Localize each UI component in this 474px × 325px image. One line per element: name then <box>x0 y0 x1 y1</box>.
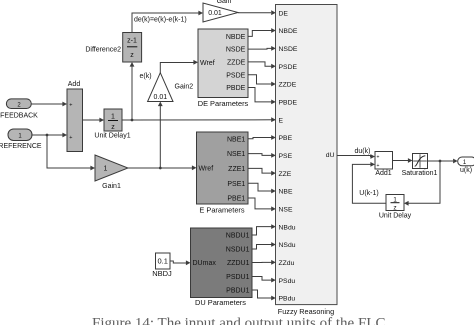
svg-text:PBDE: PBDE <box>226 85 245 92</box>
svg-text:PBDE: PBDE <box>279 99 298 106</box>
svg-text:NBDU1: NBDU1 <box>226 233 250 240</box>
svg-text:Figure 14: The input and outpu: Figure 14: The input and output units of… <box>92 315 385 325</box>
svg-text:1: 1 <box>104 166 108 173</box>
svg-text:+: + <box>376 155 379 161</box>
svg-text:ZZE: ZZE <box>279 171 292 178</box>
svg-text:du(k): du(k) <box>355 148 371 155</box>
svg-text:PBE1: PBE1 <box>227 196 245 203</box>
svg-text:PSDU1: PSDU1 <box>226 274 249 281</box>
svg-text:NBDJ: NBDJ <box>152 269 172 278</box>
svg-text:PSdu: PSdu <box>279 278 296 285</box>
svg-text:NSDE: NSDE <box>279 46 298 53</box>
svg-text:Gain2: Gain2 <box>175 84 194 91</box>
svg-text:PSE: PSE <box>279 153 293 160</box>
svg-text:dU: dU <box>326 152 335 159</box>
svg-text:NSE1: NSE1 <box>227 151 245 158</box>
svg-text:NSE: NSE <box>279 206 293 213</box>
svg-text:PBdu: PBdu <box>279 296 296 303</box>
svg-text:PBDU1: PBDU1 <box>226 288 249 295</box>
svg-text:de(k)=e(k)-e(k-1): de(k)=e(k)-e(k-1) <box>134 17 187 24</box>
svg-text:DU Parameters: DU Parameters <box>195 298 246 307</box>
svg-text:Difference2: Difference2 <box>85 47 121 54</box>
svg-text:Unit Delay1: Unit Delay1 <box>94 133 130 140</box>
svg-text:REFERENCE: REFERENCE <box>0 143 42 150</box>
svg-text:Add1: Add1 <box>375 170 391 177</box>
svg-text:PSDE: PSDE <box>226 72 245 79</box>
svg-text:Wref: Wref <box>199 165 214 172</box>
svg-text:DUmax: DUmax <box>193 260 217 267</box>
svg-text:NBDE: NBDE <box>279 28 298 35</box>
svg-text:z-1: z-1 <box>127 38 137 45</box>
svg-text:Gain: Gain <box>217 0 232 5</box>
svg-text:ZZDE: ZZDE <box>227 60 246 67</box>
svg-text:NBDE: NBDE <box>226 34 246 41</box>
svg-text:e(k): e(k) <box>139 73 151 80</box>
svg-text:+: + <box>376 163 379 169</box>
svg-text:Saturation1: Saturation1 <box>402 170 438 177</box>
svg-text:u(k): u(k) <box>460 167 472 174</box>
svg-text:NSDE: NSDE <box>226 47 246 54</box>
svg-text:DE Parameters: DE Parameters <box>198 99 249 108</box>
svg-text:z: z <box>393 205 396 212</box>
svg-text:ZZdu: ZZdu <box>279 260 295 267</box>
svg-text:ZZDU1: ZZDU1 <box>227 260 250 267</box>
svg-text:0.1: 0.1 <box>157 257 167 266</box>
svg-text:+: + <box>69 102 72 108</box>
svg-text:0.01: 0.01 <box>153 94 167 101</box>
svg-text:ZZDE: ZZDE <box>279 82 297 89</box>
svg-text:1: 1 <box>111 114 115 121</box>
svg-text:0.01: 0.01 <box>208 10 222 17</box>
svg-text:NSDU1: NSDU1 <box>226 247 250 254</box>
svg-text:Gain1: Gain1 <box>102 183 121 190</box>
svg-text:Unit Delay: Unit Delay <box>379 212 412 219</box>
svg-text:PSE1: PSE1 <box>227 181 245 188</box>
svg-text:PBE: PBE <box>279 135 293 142</box>
svg-text:z: z <box>111 124 115 131</box>
svg-text:z: z <box>130 52 134 59</box>
svg-text:E Parameters: E Parameters <box>199 205 244 214</box>
svg-text:NBE1: NBE1 <box>227 136 245 143</box>
svg-text:PSDE: PSDE <box>279 64 298 71</box>
svg-text:DE: DE <box>279 10 289 17</box>
svg-text:Add: Add <box>68 81 81 88</box>
svg-text:E: E <box>279 117 284 124</box>
svg-text:ZZE1: ZZE1 <box>228 166 245 173</box>
svg-text:NSdu: NSdu <box>279 242 296 249</box>
svg-text:U(k-1): U(k-1) <box>359 190 378 197</box>
svg-text:+: + <box>69 135 72 141</box>
svg-text:Wref: Wref <box>200 60 215 67</box>
svg-text:NBE: NBE <box>279 189 293 196</box>
svg-text:NBdu: NBdu <box>279 224 296 231</box>
svg-text:FEEDBACK: FEEDBACK <box>0 113 38 120</box>
